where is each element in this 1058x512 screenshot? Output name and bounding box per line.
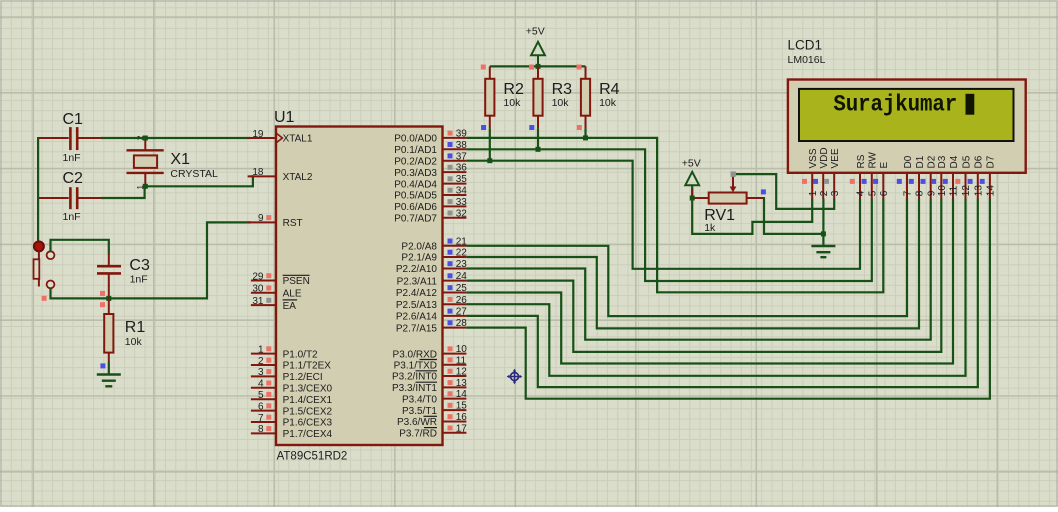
U1 pin 3 P1.2/ECI (251, 367, 323, 383)
svg-text:38: 38 (456, 140, 468, 151)
svg-text:12: 12 (961, 185, 972, 197)
svg-text:P0.5/AD5: P0.5/AD5 (394, 191, 437, 202)
svg-text:E: E (879, 162, 890, 169)
capacitor C3 (97, 254, 121, 297)
svg-text:34: 34 (456, 186, 468, 197)
svg-text:+5V: +5V (526, 26, 545, 38)
svg-text:30: 30 (252, 284, 264, 295)
pin-end marker button lower (42, 296, 47, 301)
wire P2.5 to LCD D5 (466, 199, 965, 376)
svg-text:32: 32 (456, 208, 468, 219)
U1 pin 25 P2.4/A12 (396, 283, 467, 299)
resistor R2 (485, 66, 494, 128)
resistor R4 (581, 66, 590, 128)
U1 pin 38 P0.1/AD1 (394, 140, 467, 156)
svg-text:1: 1 (808, 190, 819, 196)
U1 pin 28 P2.7/A15 (396, 318, 467, 334)
svg-text:1nF: 1nF (63, 211, 81, 223)
wire C1 to XTAL1 (pin 19) (101, 137, 251, 139)
pin-end marker C3 upper (100, 291, 105, 296)
LCD1 pin 2 VDD (813, 147, 830, 198)
pin-end marker R3 bottom (529, 125, 534, 130)
svg-text:25: 25 (456, 283, 468, 294)
svg-text:29: 29 (252, 271, 264, 282)
svg-text:VSS: VSS (808, 148, 819, 168)
svg-text:D2: D2 (927, 155, 938, 168)
svg-text:P3.2/INT0: P3.2/INT0 (392, 372, 437, 383)
svg-text:Surajkumar: Surajkumar (833, 92, 957, 118)
wire +5V to LCD VSS (692, 197, 812, 234)
wire RV1 wiper to LCD VEE (736, 174, 834, 209)
U1 pin 29 PSEN (251, 271, 310, 287)
wire button top contact to C3 top (51, 240, 109, 254)
wire R1 to ground (108, 362, 110, 374)
svg-text:P1.7/CEX4: P1.7/CEX4 (283, 429, 333, 440)
svg-text:P3.7/RD: P3.7/RD (399, 429, 437, 440)
svg-text:13: 13 (973, 185, 984, 197)
capacitor C1 (38, 127, 103, 150)
svg-text:P0.4/AD4: P0.4/AD4 (394, 179, 437, 190)
U1 pin 15 P3.5/T1 (402, 401, 467, 417)
svg-text:CRYSTAL: CRYSTAL (170, 168, 218, 180)
svg-text:VEE: VEE (830, 148, 841, 168)
svg-text:P0.6/AD6: P0.6/AD6 (394, 202, 437, 213)
svg-text:P3.4/T0: P3.4/T0 (402, 394, 437, 405)
origin marker (507, 369, 523, 385)
LCD1 pin 10 D3 (931, 155, 948, 198)
svg-text:2: 2 (258, 356, 264, 367)
LCD1 pin 11 D4 (943, 155, 960, 198)
svg-text:10k: 10k (503, 97, 521, 109)
ground (R1) (97, 375, 121, 387)
svg-text:RS: RS (856, 154, 867, 168)
svg-text:R4: R4 (599, 81, 620, 98)
pin-end marker R2 bottom (481, 125, 486, 130)
junction +5V rail (536, 64, 541, 69)
svg-text:11: 11 (949, 185, 960, 196)
U1 pin 6 P1.5/CEX2 (251, 401, 333, 417)
svg-text:P2.3/A11: P2.3/A11 (397, 276, 438, 287)
junction crystal bottom (143, 184, 148, 189)
svg-text:2: 2 (819, 190, 830, 196)
svg-text:1: 1 (258, 344, 264, 355)
svg-text:P2.5/A13: P2.5/A13 (396, 300, 438, 311)
svg-text:3: 3 (258, 367, 264, 378)
svg-text:4: 4 (258, 379, 264, 390)
junction crystal top (143, 136, 148, 141)
svg-text:17: 17 (456, 423, 468, 434)
pin-end marker R2 top (481, 65, 486, 70)
svg-text:LCD1: LCD1 (788, 38, 823, 53)
svg-text:9: 9 (926, 190, 937, 196)
svg-text:31: 31 (252, 296, 264, 307)
wiper terminal marker (731, 171, 736, 176)
svg-text:EA: EA (283, 301, 297, 312)
U1 pin 19 XTAL1 (248, 129, 313, 145)
svg-text:R3: R3 (552, 81, 573, 98)
pin-end marker RV1 right (761, 189, 766, 194)
svg-text:P1.5/CEX2: P1.5/CEX2 (283, 406, 333, 417)
svg-text:D6: D6 (974, 155, 985, 168)
wire P2.4 to LCD D4 (466, 199, 953, 364)
wire C1-C2 left rail down to button (37, 137, 39, 241)
U1 pin 8 P1.7/CEX4 (251, 424, 333, 440)
svg-text:D3: D3 (937, 155, 948, 168)
U1 pin 33 P0.6/AD6 (394, 197, 467, 213)
LCD1 pin 13 D6 (968, 155, 985, 198)
U1 pin 22 P2.1/A9 (401, 248, 467, 264)
U1 pin 4 P1.3/CEX0 (251, 379, 333, 395)
svg-text:P2.1/A9: P2.1/A9 (401, 253, 437, 264)
svg-text:D0: D0 (903, 155, 914, 168)
svg-text:8: 8 (258, 424, 264, 435)
junction reset node (106, 296, 111, 301)
LCD1 pin 7 D0 (897, 155, 914, 198)
svg-text:4: 4 (856, 190, 867, 196)
wire crystal bottom to XTAL2 (pin 18) (145, 176, 253, 186)
wire R4 to P0 bus (584, 128, 586, 138)
svg-text:P0.2/AD2: P0.2/AD2 (394, 156, 437, 167)
svg-text:3: 3 (830, 190, 841, 196)
svg-text:P1.2/ECI: P1.2/ECI (283, 372, 323, 383)
svg-text:C1: C1 (63, 111, 84, 128)
svg-text:P2.7/A15: P2.7/A15 (396, 323, 438, 334)
svg-text:8: 8 (915, 190, 926, 196)
U1 pin 12 P3.2/INT0 (392, 367, 467, 383)
svg-text:+5V: +5V (682, 157, 701, 169)
junction RV1 left (690, 196, 695, 201)
svg-text:33: 33 (456, 197, 468, 208)
svg-text:XTAL1: XTAL1 (283, 134, 313, 145)
svg-text:P0.7/AD7: P0.7/AD7 (394, 214, 437, 225)
crystal X1 (127, 139, 164, 185)
U1 pin 11 P3.1/TXD (394, 355, 467, 371)
svg-text:1nF: 1nF (63, 152, 81, 164)
junction R4 (583, 135, 588, 140)
wire +5V rail to pullups (490, 65, 586, 67)
svg-text:PSEN: PSEN (283, 276, 310, 287)
LCD screen (799, 89, 1014, 141)
LCD1 pin 8 D1 (909, 155, 926, 198)
junction VDD/ground node (821, 231, 826, 236)
svg-text:27: 27 (456, 307, 468, 318)
svg-text:LM016L: LM016L (788, 54, 826, 66)
svg-text:P0.0/AD0: P0.0/AD0 (394, 134, 437, 145)
svg-text:C2: C2 (63, 170, 84, 187)
wire P2.6 to LCD D6 (466, 199, 977, 388)
svg-text:10: 10 (456, 344, 468, 355)
svg-text:13: 13 (456, 378, 468, 389)
svg-text:P1.3/CEX0: P1.3/CEX0 (283, 384, 333, 395)
U1 pin 27 P2.6/A14 (396, 307, 467, 323)
wire P2.1 to LCD D1 (466, 199, 919, 329)
svg-text:D7: D7 (986, 155, 997, 168)
svg-text:P2.6/A14: P2.6/A14 (396, 312, 438, 323)
svg-text:RST: RST (283, 218, 303, 229)
wire P0.1 to LCD RW (466, 149, 871, 281)
U1 pin 13 P3.3/INT1 (392, 378, 467, 394)
svg-text:X1: X1 (170, 151, 190, 168)
U1 pin 23 P2.2/A10 (396, 259, 467, 275)
svg-text:P1.0/T2: P1.0/T2 (283, 349, 318, 360)
svg-text:D4: D4 (949, 155, 960, 168)
LCD LCD1 body (788, 80, 1026, 173)
svg-text:23: 23 (456, 259, 468, 270)
U1 pin 10 P3.0/RXD (393, 344, 468, 360)
wire P0.2 to LCD RS (466, 161, 860, 269)
svg-text:21: 21 (456, 236, 468, 247)
U1 pin 14 P3.4/T0 (402, 389, 467, 405)
pin-end marker R4 top (577, 65, 582, 70)
push button (34, 242, 55, 289)
LCD1 pin 4 RS (850, 154, 867, 198)
svg-text:5: 5 (258, 390, 264, 401)
svg-text:10k: 10k (599, 97, 617, 109)
U1 pin 5 P1.4/CEX1 (251, 390, 333, 406)
svg-text:7: 7 (903, 190, 914, 196)
svg-text:12: 12 (456, 367, 468, 378)
power +5V (RV1) (685, 172, 699, 198)
wire C2 to crystal bottom (101, 186, 145, 198)
svg-text:26: 26 (456, 295, 468, 306)
svg-text:37: 37 (456, 151, 468, 162)
wire P2.2 to LCD D2 (466, 199, 930, 340)
U1 pin 32 P0.7/AD7 (394, 208, 467, 224)
svg-text:6: 6 (258, 401, 264, 412)
U1 pin 17 P3.7/RD (399, 423, 467, 439)
svg-text:P3.1/TXD: P3.1/TXD (394, 360, 437, 371)
U1 pin 16 P3.6/WR (397, 412, 467, 428)
svg-text:D1: D1 (915, 155, 926, 168)
svg-text:P0.1/AD1: P0.1/AD1 (394, 145, 437, 156)
wire P0.0 to LCD E (466, 138, 883, 292)
svg-text:39: 39 (456, 129, 468, 140)
svg-text:11: 11 (456, 355, 467, 366)
junction R2 (487, 158, 492, 163)
svg-text:15: 15 (456, 401, 468, 412)
wire P2.7 to LCD D7 (466, 199, 990, 399)
wire R3 to P0 bus (537, 128, 539, 149)
wire R2 to P0 bus (489, 128, 491, 160)
svg-text:RW: RW (868, 151, 879, 168)
svg-text:D5: D5 (961, 155, 972, 168)
wire RV1 right to LCD VDD and ground (764, 197, 823, 234)
svg-text:VDD: VDD (819, 147, 830, 168)
svg-text:U1: U1 (274, 109, 295, 126)
svg-text:6: 6 (879, 190, 890, 196)
potentiometer RV1 (692, 176, 764, 204)
capacitor C2 (38, 187, 103, 209)
svg-text:10: 10 (937, 185, 948, 197)
svg-text:P1.4/CEX1: P1.4/CEX1 (283, 395, 333, 406)
U1 pin 7 P1.6/CEX3 (251, 413, 333, 429)
svg-text:19: 19 (252, 129, 264, 140)
U1 pin 34 P0.5/AD5 (394, 186, 467, 202)
U1 pin 26 P2.5/A13 (396, 295, 467, 311)
svg-text:5: 5 (867, 190, 878, 196)
U1 pin 37 P0.2/AD2 (394, 151, 467, 167)
U1 pin 36 P0.3/AD3 (394, 163, 467, 179)
wire P2.3 to LCD D3 (466, 199, 941, 352)
LCD1 pin 3 VEE (824, 148, 841, 199)
U1 pin 18 XTAL2 (248, 167, 313, 183)
LCD cursor block (966, 94, 975, 115)
svg-text:P0.3/AD3: P0.3/AD3 (394, 168, 437, 179)
svg-text:C3: C3 (129, 257, 150, 274)
U1 pin 35 P0.4/AD4 (394, 174, 467, 190)
svg-text:36: 36 (456, 163, 468, 174)
svg-text:P2.0/A8: P2.0/A8 (401, 242, 437, 253)
U1 XTAL1 clock symbol (277, 134, 283, 143)
resistor R3 (533, 66, 542, 128)
wire reset node to RST (pin 9) (51, 222, 251, 298)
pin-end marker R4 bottom (577, 125, 582, 130)
svg-text:P3.3/INT1: P3.3/INT1 (392, 383, 437, 394)
resistor R1 (104, 298, 113, 362)
pin-end marker C3 lower (100, 302, 105, 307)
svg-text:10k: 10k (552, 97, 570, 109)
power +5V (top) (531, 42, 545, 67)
svg-text:AT89C51RD2: AT89C51RD2 (277, 451, 348, 463)
LCD1 pin 1 VSS (802, 148, 819, 199)
svg-text:14: 14 (456, 389, 468, 400)
svg-text:16: 16 (456, 412, 468, 423)
svg-text:28: 28 (456, 318, 468, 329)
LCD1 pin 12 D5 (955, 155, 972, 198)
U1 pin 9 RST (248, 213, 303, 229)
svg-text:22: 22 (456, 248, 468, 259)
U1 pin 21 P2.0/A8 (401, 236, 467, 252)
U1 pin 30 ALE (251, 284, 302, 300)
svg-text:R1: R1 (125, 319, 146, 336)
U1 pin 2 P1.1/T2EX (251, 356, 331, 372)
U1 pin 1 P1.0/T2 (251, 344, 318, 360)
wire P2.0 to LCD D0 (466, 199, 907, 317)
LCD1 pin 9 D2 (921, 155, 938, 198)
microcontroller U1 body (276, 127, 443, 446)
svg-text:24: 24 (456, 271, 468, 282)
svg-text:P1.6/CEX3: P1.6/CEX3 (283, 418, 333, 429)
svg-text:9: 9 (258, 213, 264, 224)
svg-text:ALE: ALE (283, 289, 302, 300)
svg-text:P3.6/WR: P3.6/WR (397, 417, 437, 428)
svg-text:P3.0/RXD: P3.0/RXD (393, 349, 437, 360)
pin-end marker R3 top (529, 65, 534, 70)
junction R3 (536, 147, 541, 152)
svg-text:1nF: 1nF (130, 273, 148, 285)
U1 pin 31 EA (251, 296, 297, 312)
LCD1 pin 5 RW (862, 151, 879, 198)
svg-text:7: 7 (258, 413, 264, 424)
svg-text:XTAL2: XTAL2 (283, 172, 313, 183)
svg-text:P2.4/A12: P2.4/A12 (396, 288, 438, 299)
svg-text:P1.1/T2EX: P1.1/T2EX (283, 361, 332, 372)
U1 pin 39 P0.0/AD0 (394, 129, 467, 145)
svg-text:10k: 10k (125, 336, 143, 348)
svg-text:1k: 1k (704, 222, 716, 234)
svg-text:35: 35 (456, 174, 468, 185)
svg-text:14: 14 (986, 185, 997, 197)
svg-text:P2.2/A10: P2.2/A10 (396, 264, 438, 275)
LCD1 pin 6 E (873, 162, 890, 199)
svg-text:18: 18 (252, 167, 264, 178)
ground (LCD) (811, 246, 835, 257)
pin-end marker R1 bottom (100, 363, 105, 368)
svg-text:R2: R2 (503, 81, 524, 98)
U1 pin 24 P2.3/A11 (397, 271, 468, 287)
svg-text:P3.5/T1: P3.5/T1 (402, 406, 437, 417)
LCD1 pin 14 D7 (980, 155, 997, 198)
